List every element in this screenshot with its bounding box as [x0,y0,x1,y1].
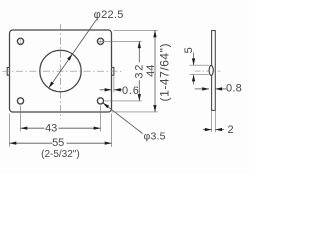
left tab [7,67,9,75]
svg-text:φ3.5: φ3.5 [144,131,166,143]
dim 32 [138,41,140,62]
side view centerline [195,70,221,72]
leader line phi22.5 [49,20,97,89]
corner hole bottom-left [17,98,23,104]
corner hole bottom-right [97,98,103,104]
dim 0.8 [195,88,209,90]
svg-text:32: 32 [134,63,146,79]
svg-text:(2-5/32"): (2-5/32") [41,149,80,160]
svg-text:55: 55 [52,137,64,149]
dim 55 [10,142,53,144]
dim 43 [21,127,45,129]
arrowhead at bottom-right hole [103,103,109,109]
extension line hole row bottom [105,100,142,102]
extension line tab [113,77,115,93]
svg-text:5: 5 [183,47,195,53]
leader line phi3.5 [103,103,143,134]
extension line hole row top [97,40,142,42]
dim 0.6 line left part [100,89,112,91]
extension line plate top right [114,29,158,31]
dim 44 [154,30,156,112]
svg-text:φ22.5: φ22.5 [94,9,124,21]
vertical centerline [60,24,62,119]
dim 2 [203,129,212,131]
extension lines 43 [20,106,22,132]
corner hole top-right [97,38,103,44]
dim 0.6 line right part [114,89,123,91]
plate outline front view [10,30,112,112]
extension line plate bottom right [112,111,158,113]
center hole circle [40,50,81,91]
dim 5 [193,53,195,66]
extension lines 2 [211,111,213,133]
horizontal centerline [3,70,124,72]
svg-text:43: 43 [45,123,57,135]
arrowhead on circle bottom-left [49,82,54,89]
svg-text:(1-47/64"): (1-47/64") [158,43,172,101]
side view tab oval [209,65,213,75]
right tab [112,67,114,75]
side view plate [212,31,216,111]
svg-text:0.6: 0.6 [122,85,140,97]
extension lines 5 [190,64,210,66]
extension lines 55 [9,114,11,148]
svg-text:44: 44 [145,65,157,77]
svg-text:2: 2 [228,124,234,136]
arrowhead on circle top-right [67,54,72,61]
corner hole top-left [17,38,23,44]
svg-text:0.8: 0.8 [226,83,242,95]
